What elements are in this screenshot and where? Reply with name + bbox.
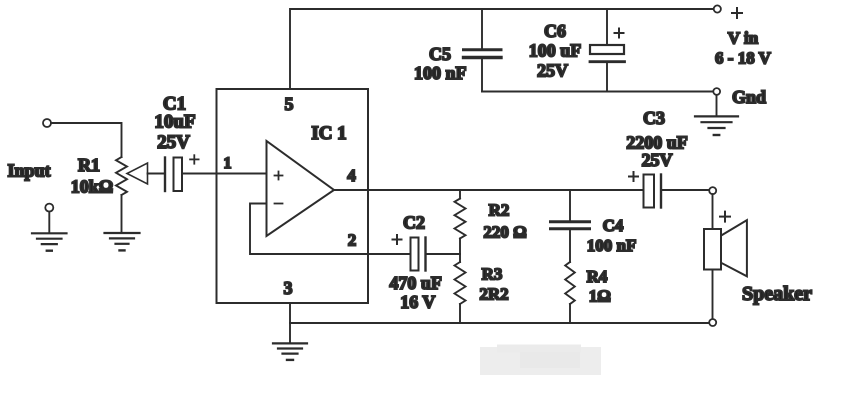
op-amp + input mark bbox=[275, 172, 283, 180]
wire: ground rail to Gnd terminal bbox=[482, 91, 713, 93]
svg-text:Input: Input bbox=[7, 161, 50, 181]
wire: lower input terminal to ground bbox=[48, 212, 50, 233]
svg-text:16 V: 16 V bbox=[400, 292, 435, 312]
capacitor C2 negative plate bbox=[424, 238, 426, 271]
terminal: V in + (open circle) bbox=[714, 5, 721, 12]
svg-text:Gnd: Gnd bbox=[732, 87, 766, 107]
svg-text:2: 2 bbox=[348, 231, 357, 250]
svg-text:25V: 25V bbox=[157, 132, 190, 153]
label: + of C6 bbox=[615, 29, 624, 38]
svg-text:R2: R2 bbox=[489, 201, 510, 220]
wire: input to R1 top bbox=[51, 123, 122, 157]
wire: pin 1 from C1 to op-amp + input bbox=[182, 173, 267, 175]
IC box U1 outline bbox=[217, 89, 369, 303]
svg-text:10uF: 10uF bbox=[154, 112, 195, 133]
wire: C5 branch from top rail bbox=[481, 9, 483, 48]
resistor R2 zigzag bbox=[455, 199, 466, 239]
svg-text:C4: C4 bbox=[603, 216, 624, 235]
wire: bottom ground rail bbox=[290, 322, 709, 324]
capacitor C5 bottom plate bbox=[464, 56, 502, 59]
capacitor C1 positive plate (box) bbox=[174, 158, 183, 192]
ground symbol below R1 bbox=[105, 233, 140, 250]
label: + of V in bbox=[732, 8, 742, 18]
terminal: speaker top (open circle) bbox=[709, 187, 716, 194]
input terminal bottom (open circle) bbox=[45, 204, 53, 212]
svg-text:C3: C3 bbox=[643, 108, 665, 128]
capacitor C4 bottom plate bbox=[551, 227, 590, 230]
speaker cone bbox=[721, 220, 747, 276]
svg-text:Speaker: Speaker bbox=[742, 283, 812, 305]
svg-text:100 nF: 100 nF bbox=[414, 63, 467, 83]
ground symbol below Gnd terminal bbox=[695, 116, 738, 135]
capacitor C4 top plate bbox=[551, 220, 590, 223]
wire: output pin 4 rail to C3 bbox=[334, 189, 644, 191]
wire: pin 3 down to ground bbox=[289, 303, 291, 343]
label: + of speaker bbox=[720, 212, 730, 222]
svg-text:C2: C2 bbox=[403, 213, 425, 233]
R1 wiper arrow bbox=[127, 163, 148, 184]
svg-text:220 Ω: 220 Ω bbox=[483, 223, 526, 242]
svg-text:25V: 25V bbox=[537, 61, 568, 81]
capacitor C1 negative plate bbox=[164, 158, 166, 192]
svg-text:C6: C6 bbox=[544, 21, 566, 41]
svg-text:3: 3 bbox=[284, 278, 293, 298]
svg-text:10kΩ: 10kΩ bbox=[71, 177, 113, 197]
svg-text:R4: R4 bbox=[587, 267, 608, 286]
label: + of C3 bbox=[629, 172, 638, 181]
svg-text:5: 5 bbox=[285, 94, 294, 114]
wire: C4 branch stub from output rail bbox=[569, 190, 571, 220]
label: + of C2 bbox=[393, 235, 402, 244]
svg-text:2R2: 2R2 bbox=[479, 285, 508, 304]
input terminal top (open circle) bbox=[43, 119, 51, 127]
wire: R1 bottom to ground bbox=[121, 195, 123, 233]
wire: C6 to ground rail bbox=[606, 63, 608, 92]
label: + of C1 bbox=[190, 155, 199, 164]
capacitor C6 positive plate (box) bbox=[590, 45, 624, 54]
svg-text:470 uF: 470 uF bbox=[389, 273, 442, 293]
wire: feedback from - input to pin 2 and C2 bbox=[250, 204, 411, 255]
wire: R3 to bottom rail bbox=[459, 304, 461, 323]
wire: C2 to R2/R3 junction bbox=[426, 253, 460, 255]
terminal: speaker bottom (open circle) bbox=[709, 319, 716, 326]
capacitor C5 top plate bbox=[464, 48, 502, 51]
wire: R4 to bottom rail bbox=[569, 304, 571, 323]
op-amp IC 1 triangle bbox=[267, 141, 335, 236]
svg-text:1Ω: 1Ω bbox=[589, 287, 611, 306]
wire: R2 branch stub from output rail bbox=[459, 190, 461, 199]
op-amp - input mark bbox=[275, 203, 283, 205]
wire: top supply rail from pin 5 to V in terminal bbox=[290, 9, 714, 89]
svg-text:100 nF: 100 nF bbox=[587, 236, 637, 255]
wire: C6 branch from top rail bbox=[606, 9, 608, 45]
wire: speaker to bottom terminal bbox=[712, 270, 714, 320]
potentiometer R1 zigzag bbox=[116, 157, 127, 195]
speaker body rectangle bbox=[704, 229, 721, 270]
svg-text:C5: C5 bbox=[429, 44, 451, 64]
wire: C5 to ground rail bbox=[481, 59, 483, 92]
wire: Gnd terminal to ground symbol bbox=[716, 95, 718, 116]
capacitor C6 negative plate bbox=[590, 60, 625, 63]
capacitor C3 positive plate (box) bbox=[644, 175, 655, 208]
capacitor C3 negative plate bbox=[660, 175, 662, 208]
svg-text:6 - 18 V: 6 - 18 V bbox=[715, 49, 772, 68]
svg-text:4: 4 bbox=[347, 166, 356, 185]
svg-text:25V: 25V bbox=[642, 150, 673, 170]
watermark smudge bbox=[480, 345, 601, 376]
wire: C4 to R4 bbox=[569, 230, 571, 262]
svg-text:V in: V in bbox=[728, 29, 759, 48]
wire: R2 to R3 junction bbox=[459, 239, 461, 263]
svg-text:IC 1: IC 1 bbox=[311, 123, 346, 144]
ground symbol below lower input terminal bbox=[32, 233, 67, 250]
capacitor C2 positive plate (box) bbox=[411, 238, 419, 271]
svg-text:R3: R3 bbox=[482, 265, 503, 284]
wire: wiper to C1 bbox=[148, 173, 165, 175]
resistor R3 zigzag bbox=[455, 262, 466, 304]
wire: C3 to speaker terminal bbox=[662, 189, 710, 191]
resistor R4 zigzag bbox=[565, 262, 575, 304]
terminal: Gnd (open circle) bbox=[713, 88, 720, 95]
wire: terminal to speaker bbox=[712, 194, 714, 229]
ground symbol at pin 3 bbox=[273, 343, 307, 360]
svg-text:R1: R1 bbox=[78, 155, 100, 175]
svg-text:100 uF: 100 uF bbox=[529, 41, 582, 61]
svg-text:1: 1 bbox=[224, 155, 232, 172]
